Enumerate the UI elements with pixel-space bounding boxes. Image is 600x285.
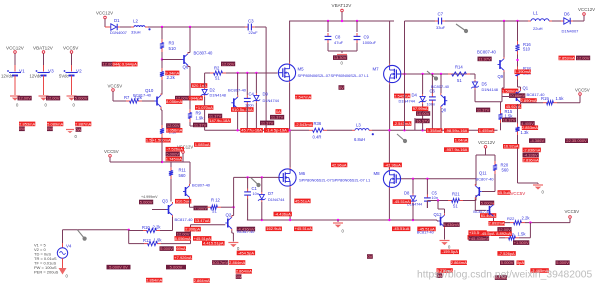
- svg-text:147.9u-18A: 147.9u-18A: [209, 118, 230, 123]
- svg-text:SPP80N06S2L-07 L1: SPP80N06S2L-07 L1: [331, 73, 370, 78]
- svg-text:13.30V: 13.30V: [334, 55, 347, 60]
- junction gnd bus D8: [412, 219, 414, 221]
- junction SW-B at D4: [421, 129, 423, 131]
- bias current 2.542mA at M7: [394, 93, 410, 98]
- wire Q6 collector down: [188, 67, 190, 110]
- svg-text:1000uF: 1000uF: [363, 40, 377, 45]
- svg-text:VCC5V: VCC5V: [104, 149, 119, 154]
- svg-text:5.000V: 5.000V: [75, 96, 88, 101]
- wire M6 source to ground bus: [289, 188, 291, 220]
- label BC807-40 for Q9: [477, 49, 497, 54]
- wire Q11 box top: [476, 154, 495, 156]
- svg-text:510: 510: [169, 46, 177, 51]
- bias label 5.000V at V2: [74, 96, 88, 101]
- resistor R5 1.1k: [160, 125, 176, 137]
- wire Q4 emitter to R12: [190, 199, 208, 207]
- svg-text:M5: M5: [298, 66, 305, 71]
- wire M7 drain to VBAT rail: [389, 21, 391, 64]
- svg-text:5.000V: 5.000V: [556, 260, 569, 265]
- ground of V1: [10, 96, 20, 108]
- wire C3 to corner and down to SW node A: [255, 27, 266, 130]
- svg-text:0W: 0W: [47, 126, 53, 131]
- svg-text:100n: 100n: [427, 102, 436, 107]
- resistor R7 2.2k: [124, 95, 143, 103]
- wire R14 to D5 column: [470, 74, 475, 79]
- voltage source V2 VCC5V: [59, 46, 82, 96]
- bias current -45.51uA right: [392, 226, 410, 231]
- junction R22 R23: [529, 221, 531, 223]
- svg-text:9.944pA: 9.944pA: [122, 62, 137, 67]
- bias labels Q12 R22 R23 cluster: [436, 227, 569, 280]
- mosfet M5 SPP80N06S2L-07: [278, 63, 304, 83]
- svg-text:0pA: 0pA: [517, 260, 524, 265]
- transistor Q3 BC817-40: [162, 198, 193, 222]
- ground of V2: [67, 96, 77, 108]
- bias label 12.00V at V3: [46, 96, 60, 101]
- VBAT top rail wire: [289, 20, 394, 22]
- bias current 45.92uA: [505, 104, 521, 109]
- svg-text:+45.51uA: +45.51uA: [295, 226, 313, 231]
- svg-text:2.836mA: 2.836mA: [523, 157, 539, 162]
- resistor R12 51: [207, 197, 221, 213]
- bias labels clamp column: [260, 109, 284, 125]
- svg-text:L1: L1: [533, 10, 538, 15]
- svg-text:2.887mA: 2.887mA: [75, 121, 91, 126]
- svg-text:C9: C9: [364, 34, 370, 39]
- svg-text:100n: 100n: [245, 102, 254, 107]
- svg-text:42.96uA: 42.96uA: [332, 162, 347, 167]
- wire junction up to M6 gate bus: [233, 177, 235, 207]
- transistor Q8 BC807-40: [431, 74, 450, 112]
- watermark text: [417, 270, 592, 281]
- svg-text:BC807-40: BC807-40: [228, 87, 247, 92]
- resistor R4 2.2k: [160, 60, 176, 81]
- wire M5 source to SW node A: [289, 83, 291, 130]
- svg-text:1.5k: 1.5k: [556, 96, 565, 101]
- bias labels row mid right: [426, 128, 494, 133]
- bias label 7.000V: [194, 205, 208, 210]
- svg-text:2.2k: 2.2k: [167, 75, 176, 80]
- svg-text:VCC12V: VCC12V: [96, 11, 113, 16]
- ground at Q13: [440, 241, 452, 250]
- bias current 910.5u-16A: [231, 107, 254, 112]
- svg-text:R7: R7: [124, 95, 130, 100]
- svg-text:-42.96uA: -42.96uA: [385, 162, 402, 167]
- svg-text:4.415.51pA: 4.415.51pA: [203, 241, 224, 246]
- bias label 0V bottom center: [367, 254, 373, 259]
- svg-text:BC817-40: BC817-40: [237, 230, 254, 234]
- wire R4 to Q10 collector: [161, 80, 163, 95]
- pulse source V4: [57, 244, 72, 269]
- bias labels at R5: [166, 123, 182, 133]
- svg-text:12Vdc: 12Vdc: [30, 74, 42, 79]
- svg-text:D1N4148: D1N4148: [210, 93, 226, 98]
- wire VCC12V pin to D1: [105, 19, 108, 27]
- svg-text:6.8uH: 6.8uH: [354, 137, 365, 142]
- svg-text:5.000V 0V: 5.000V 0V: [109, 265, 128, 270]
- capacitor C8 47uF: [325, 21, 344, 51]
- wire R5 bottom to R11 node: [161, 137, 190, 163]
- power label 0W of V1: [19, 126, 25, 131]
- svg-text:303.7mV: 303.7mV: [212, 260, 228, 265]
- lower gate bus wire to M6 gate: [234, 176, 279, 178]
- svg-text:D6: D6: [564, 11, 570, 16]
- bias current 2.890mA: [520, 98, 536, 103]
- wire Q10 emitter down: [161, 109, 162, 126]
- svg-text:BC807-40: BC807-40: [477, 49, 497, 54]
- svg-text:C7: C7: [438, 11, 444, 16]
- svg-text:BC817-40: BC817-40: [133, 92, 152, 97]
- bias current -45.51uA left of gnd: [294, 226, 312, 231]
- svg-text:R21: R21: [452, 191, 460, 196]
- svg-text:13.47uA: 13.47uA: [195, 218, 210, 223]
- wire R23 branch: [519, 223, 530, 238]
- svg-text:51: 51: [215, 75, 220, 80]
- bias current row +1.500mA: [146, 138, 171, 143]
- wire V4 to input node: [63, 230, 129, 248]
- svg-text:V3: V3: [48, 69, 54, 74]
- junction SW-A at M5 M6: [288, 129, 290, 131]
- probe on SW-B: [397, 134, 407, 143]
- junction lower-right gate D8: [412, 178, 414, 180]
- svg-text:R 12: R 12: [211, 197, 221, 202]
- svg-text:8.056mA: 8.056mA: [166, 99, 182, 104]
- wire Q13 emitter to ground: [444, 229, 446, 240]
- svg-text:D5: D5: [482, 81, 488, 86]
- bias current 1.085uA: [194, 142, 210, 147]
- voltage source V3 VBAT12V: [30, 46, 55, 96]
- svg-text:R2: R2: [214, 66, 220, 71]
- svg-text:2.890mA: 2.890mA: [521, 98, 537, 103]
- junction right gate C7col: [403, 73, 405, 75]
- bias current 45.77u-16A: [240, 128, 263, 133]
- bias label 13.30V at caps: [333, 55, 347, 60]
- svg-text:R11: R11: [179, 168, 187, 173]
- svg-text:1.085uA: 1.085uA: [195, 142, 210, 147]
- svg-text:1.3k: 1.3k: [521, 130, 530, 135]
- diode D6 D1N4007: [561, 11, 579, 33]
- bias labels right column cluster: [503, 121, 588, 163]
- svg-text:D1N4744: D1N4744: [268, 197, 285, 202]
- upper gate bus wire to M5 gate: [226, 72, 278, 74]
- inductor L3 6.8uH: [352, 122, 374, 142]
- svg-text:SPP80N06S2L-07: SPP80N06S2L-07: [298, 73, 331, 78]
- svg-text:2.547mA: 2.547mA: [295, 94, 311, 99]
- main ground bus: [247, 219, 437, 221]
- svg-text:2.864mA: 2.864mA: [146, 278, 162, 283]
- svg-text:Q13: Q13: [434, 212, 443, 217]
- wire Q1 emitter to R19: [521, 103, 544, 104]
- svg-text:1.9k: 1.9k: [154, 238, 163, 243]
- svg-text:BC817-40: BC817-40: [417, 230, 434, 234]
- svg-text:D7: D7: [268, 191, 274, 196]
- svg-text:BC807-40: BC807-40: [194, 51, 214, 56]
- bias labels near Q13: [417, 226, 487, 239]
- junction SW-B at C7 column: [403, 129, 405, 131]
- wire R11 to Q3 collector: [170, 162, 172, 202]
- power pin VCC12V mid left: [177, 144, 193, 162]
- power pin VCC5V lower left: [104, 149, 162, 162]
- resistor R20 560: [493, 161, 509, 174]
- mosfet M8 SPP80N06S2L-07: [383, 169, 400, 189]
- probe near C7: [456, 24, 468, 33]
- svg-text:8.056mA: 8.056mA: [166, 128, 182, 133]
- svg-text:BC817-40: BC817-40: [175, 217, 194, 222]
- svg-text:SPP80N06S2L-07 L1: SPP80N06S2L-07 L1: [332, 178, 371, 183]
- ground arrow at V4: [59, 268, 69, 279]
- junction SW-B at C6: [431, 129, 433, 131]
- SW bus node B wire right: [405, 129, 498, 131]
- ground below decoupling caps: [337, 55, 347, 66]
- svg-text:R14: R14: [455, 65, 463, 70]
- wire R18 to Q1: [518, 80, 521, 90]
- svg-text:-454.5pA: -454.5pA: [238, 250, 255, 255]
- svg-text:D1N4744: D1N4744: [263, 98, 280, 103]
- resistor R23 1.5k: [505, 231, 526, 240]
- label M7: [373, 66, 380, 71]
- svg-text:2.864mA: 2.864mA: [236, 269, 252, 274]
- svg-text:8.892uA: 8.892uA: [496, 231, 511, 236]
- svg-text:2.864mA: 2.864mA: [194, 278, 210, 283]
- svg-text:R36: R36: [314, 121, 322, 126]
- bias label 5.000V under Q11: [480, 200, 494, 205]
- capacitor C3 22uF: [245, 19, 258, 36]
- svg-text:-4.386V: -4.386V: [530, 138, 544, 143]
- svg-text:1.358uA: 1.358uA: [427, 128, 442, 133]
- svg-text:9.34mA: 9.34mA: [165, 70, 179, 75]
- svg-text:R3: R3: [169, 41, 175, 46]
- bias labels 2.853mA 12.00V top right: [559, 55, 591, 60]
- wire Q3 emitter down to R10 wire: [172, 217, 174, 231]
- svg-text:-2.543mA: -2.543mA: [394, 121, 412, 126]
- bias current -2.543mA right: [393, 121, 411, 126]
- svg-text:12.00V: 12.00V: [47, 96, 60, 101]
- bias current 45.51uA mid: [294, 198, 310, 203]
- net label VCC5V mid right: [498, 190, 526, 196]
- bias current -4.436uA: [274, 211, 292, 216]
- wire R12 to Q2 collector node: [221, 206, 234, 208]
- svg-text:5.000V: 5.000V: [160, 246, 173, 251]
- junction SW-A at Q5: [236, 129, 238, 131]
- junction gnd bus gndsym: [337, 219, 339, 221]
- svg-text:M6: M6: [299, 171, 306, 176]
- resistor R18 2.2k: [515, 66, 531, 80]
- resistor R36 0.4R: [309, 121, 327, 139]
- wire Q8 to SW-B bus: [440, 108, 442, 130]
- mosfet M6 SPP80N06S2L-07: [279, 167, 306, 187]
- capacitor C7 33uF: [435, 11, 446, 29]
- wire C7 column down to SW-B: [404, 21, 406, 130]
- wire L2 to C3 along top rail: [148, 26, 247, 28]
- svg-text:VCC12V: VCC12V: [478, 140, 495, 145]
- wire R7 to Q10 base: [142, 100, 155, 102]
- svg-text:VCC5V: VCC5V: [511, 191, 526, 196]
- svg-text:D1N4007: D1N4007: [110, 30, 128, 35]
- zener D7 D1N4744: [258, 177, 285, 220]
- wire R23 left end: [499, 237, 505, 239]
- junction VBAT at C9: [356, 20, 358, 22]
- capacitor C4 100n: [244, 73, 255, 130]
- lower right gate line: [401, 178, 476, 180]
- junction top rail at Q6 emitter: [189, 26, 191, 28]
- wire M8 drain from SW node B: [388, 130, 390, 169]
- ground symbol on bus: [333, 220, 345, 234]
- wire junction to Q6 base: [162, 59, 182, 61]
- wire input to Q3 base: [152, 209, 166, 211]
- svg-text:11.37V: 11.37V: [194, 122, 207, 127]
- bias current -42.96uA at M8: [384, 162, 402, 167]
- svg-text:D1N4007: D1N4007: [562, 29, 580, 34]
- zener D4 D1N4744: [399, 74, 427, 130]
- wire Q9 emitter down: [502, 72, 504, 102]
- capacitor C1 10n: [244, 177, 259, 220]
- svg-text:1.455uA: 1.455uA: [479, 128, 494, 133]
- junction SW-A at C4: [246, 129, 248, 131]
- wire R20 to Q11 base: [482, 174, 495, 192]
- bias label 5.000V at Q3 base: [139, 195, 158, 204]
- resistor R2 51: [205, 66, 226, 81]
- junction SW-B at Q8: [440, 129, 442, 131]
- junction top rail at R3: [161, 26, 163, 28]
- svg-text:11.97V: 11.97V: [478, 56, 491, 61]
- transistor Q9 BC807-40: [498, 21, 505, 79]
- svg-text:22uH: 22uH: [533, 26, 543, 31]
- svg-text:1.9k: 1.9k: [196, 115, 205, 120]
- wire junction down to Q2 collector: [232, 207, 234, 215]
- svg-text:10.00V: 10.00V: [417, 111, 430, 116]
- junction right gate C6: [431, 73, 433, 75]
- label BC817-40 at Q12: [473, 210, 490, 214]
- svg-text:-45.51nA: -45.51nA: [394, 199, 411, 204]
- junction gnd bus M8: [388, 219, 390, 221]
- resistor R17 1.3k: [515, 104, 529, 135]
- junction gate bus at D9: [255, 72, 257, 74]
- svg-text:V2: V2: [76, 69, 82, 74]
- junction R21 line at Q13: [437, 199, 439, 201]
- bias current 162.9uA: [266, 226, 282, 231]
- bias labels 5.000V 69nA on R13 wire: [160, 246, 187, 251]
- svg-text:R22: R22: [507, 216, 515, 221]
- zener D8 D1N4744: [404, 179, 422, 220]
- power label 0W of V2: [75, 127, 81, 132]
- svg-text:0W: 0W: [75, 127, 81, 132]
- svg-text:VBAT12V: VBAT12V: [33, 46, 54, 51]
- ground right mid: [533, 185, 545, 195]
- svg-text:VCC5V: VCC5V: [108, 84, 123, 89]
- junction SW-A at D9: [255, 129, 257, 131]
- svg-text:45.5uA: 45.5uA: [498, 190, 511, 195]
- diode D1 D1N4007: [108, 18, 128, 35]
- svg-text:47uF: 47uF: [334, 40, 344, 45]
- bias current 9.34mA at R4: [165, 70, 179, 75]
- resistor R13 1.9k: [129, 238, 191, 246]
- bias current 1.500mA: [502, 88, 518, 93]
- transistor Q10 BC817-40: [133, 88, 161, 109]
- capacitor C9 1000uF: [354, 21, 377, 51]
- wire ground bus to Q13 base: [437, 220, 439, 221]
- svg-text:PER = 200uS: PER = 200uS: [34, 270, 59, 275]
- svg-text:162.9uA: 162.9uA: [266, 226, 281, 231]
- bias labels near D4 Q8: [412, 106, 430, 123]
- svg-text:-4.436uA: -4.436uA: [275, 211, 292, 216]
- resistor R9 1.9k: [188, 109, 204, 122]
- svg-text:VCC12V: VCC12V: [6, 46, 25, 51]
- bias current -2.543mA left: [295, 122, 313, 127]
- svg-text:0A: 0A: [276, 109, 281, 114]
- zener D9 D1N4744: [253, 73, 280, 130]
- junction C7 rail at Q9: [503, 20, 505, 22]
- label M8: [374, 171, 381, 176]
- junction gate bus at C4: [246, 72, 248, 74]
- svg-text:D9: D9: [263, 91, 269, 96]
- bias label 12.00V at V1: [18, 96, 32, 101]
- bias current -1.45p-19A: [264, 128, 289, 133]
- bias labels bottom left cluster: [107, 227, 253, 283]
- transistor Q6 BC807-40: [182, 51, 214, 70]
- wire R22 to VCC5V pin: [525, 219, 570, 223]
- svg-text:VCC12V: VCC12V: [578, 7, 595, 12]
- wire R13 up to Q2 base: [191, 225, 226, 244]
- bias labels left of VCC12V pin: [166, 147, 184, 162]
- upper right gate line: [401, 73, 470, 75]
- bias label 10.66mV at Q1: [509, 93, 525, 98]
- wire C8 C9 bottoms: [328, 51, 357, 53]
- svg-text:8.056mA: 8.056mA: [175, 236, 191, 241]
- svg-text:-957.9u-16A: -957.9u-16A: [445, 147, 467, 152]
- bias label 11.37V below D5: [476, 107, 490, 112]
- bias current 620.1nA: [191, 83, 207, 88]
- power pin VCC12V top right: [578, 7, 595, 15]
- bias current 13.47uA: [194, 218, 210, 223]
- resistor R14 51: [448, 65, 470, 83]
- svg-text:0V: 0V: [339, 85, 344, 90]
- svg-text:0W: 0W: [19, 126, 25, 131]
- wire R19 to VCC5V pin: [557, 95, 580, 102]
- transistor Q4 BC807-40: [183, 182, 211, 199]
- svg-text:BC807-40: BC807-40: [192, 182, 211, 187]
- svg-text:16.92uA: 16.92uA: [504, 144, 519, 149]
- power pin VCC12V lower right: [478, 140, 495, 155]
- wire R21 to Q11 box: [463, 195, 476, 201]
- svg-text:4.436mV: 4.436mV: [444, 222, 460, 227]
- svg-text:C8: C8: [335, 34, 341, 39]
- svg-text:+7.926nA: +7.926nA: [174, 255, 192, 260]
- wire M5 drain to VBAT rail: [289, 21, 291, 63]
- svg-text:16.37V: 16.37V: [503, 117, 516, 122]
- svg-text:22.35.000V: 22.35.000V: [566, 138, 587, 143]
- svg-text:R10: R10: [142, 225, 150, 230]
- V4 parameter text: [34, 243, 59, 275]
- svg-text:VCC5V: VCC5V: [565, 209, 580, 214]
- svg-text:BC807-40: BC807-40: [431, 84, 450, 89]
- diode D5 D1N4148: [471, 80, 498, 93]
- bias current 2.547mA at M5: [295, 94, 311, 99]
- power pin VCC12V top left: [96, 11, 113, 19]
- svg-text:1.745mA: 1.745mA: [166, 156, 182, 161]
- bias label 12.00V on gate bus: [221, 61, 235, 66]
- bias current 1.390mA at R18: [515, 69, 531, 74]
- bias current 2.887mA of V2: [75, 121, 91, 126]
- capacitor C6 100n: [427, 74, 436, 130]
- svg-text:12.00V: 12.00V: [577, 55, 590, 60]
- svg-text:910.5uA: 910.5uA: [176, 199, 191, 204]
- svg-text:0V: 0V: [367, 254, 372, 259]
- svg-text:45.77u-16A: 45.77u-16A: [241, 128, 262, 133]
- resistor R19 1.5k: [541, 96, 564, 105]
- svg-text:M8: M8: [374, 171, 381, 176]
- junction SW-A at C3: [265, 129, 267, 131]
- wire L1 to D6: [552, 20, 561, 22]
